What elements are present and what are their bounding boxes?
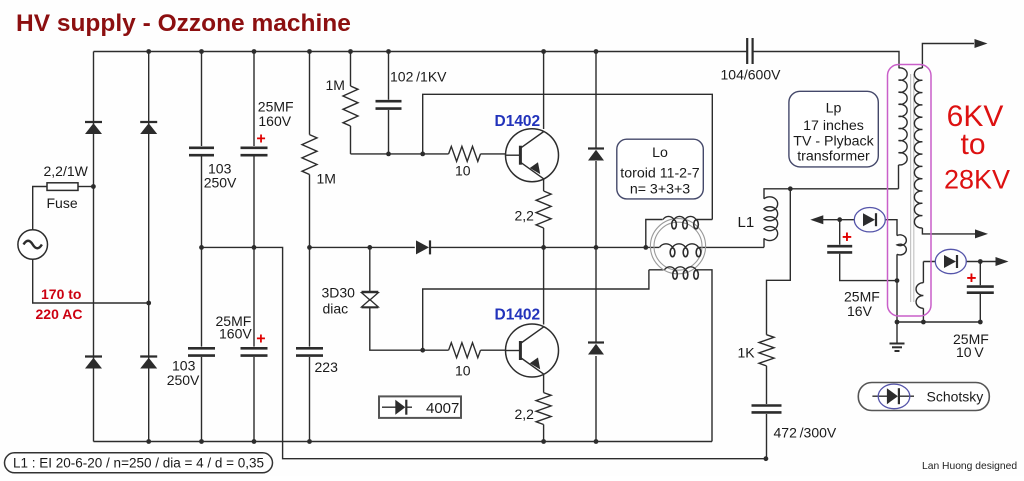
legend schottky diode: [872, 395, 914, 397]
wire: Lp secondary bottom lead to HV output 2: [922, 228, 975, 234]
svg-text:1K: 1K: [738, 345, 756, 361]
capacitor 25MF/160V bottom plates: [241, 347, 268, 350]
wire: L1 leads: [764, 189, 899, 248]
AC source sine symbol: [24, 241, 42, 249]
svg-text:Lo: Lo: [652, 145, 668, 161]
capacitor 472/300V plates: [752, 404, 782, 407]
wire: column x=388.5 (102/1KV): [388, 52, 390, 154]
AC source V1 circle: [18, 230, 48, 260]
junction dots ground line: [895, 320, 900, 325]
capacitor 103/250V top plates: [189, 147, 214, 150]
wire: switch node to toroid middle winding and L1: [544, 246, 764, 248]
wire: mid node bus y=247.4 from C bank down to 472 cap: [202, 247, 766, 458]
svg-text:10: 10: [455, 163, 471, 179]
svg-text:2,2/1W: 2,2/1W: [44, 163, 89, 179]
inductor L1 winding: [764, 197, 778, 241]
resistor 1M upper: [343, 86, 358, 126]
wire: toroid top winding leads: [646, 220, 713, 248]
output arrow HV top: [975, 39, 988, 48]
wire: column of capacitor C 103/250V top: [201, 52, 203, 442]
svg-text:diac: diac: [323, 301, 349, 317]
diode D3 bridge bottom-left: [85, 355, 102, 357]
wire: toroid bottom winding leads / bottom rail riser: [649, 270, 712, 442]
wire: Q2 collector: [543, 247, 545, 324]
wire: 25MF/16V cap branch: [840, 220, 897, 281]
flyback magenta outline: [888, 65, 932, 317]
wire: lower small winding leads: [922, 262, 924, 323]
toroid Lo top winding: [663, 216, 696, 219]
wire: column x=309.5 (1M lower + 223): [309, 52, 311, 442]
capacitor 103/250V bottom plates: [188, 347, 215, 350]
wire: Lp primary bottom lead: [898, 165, 900, 189]
transistor Q2 D1402: [506, 324, 559, 377]
svg-text:4007: 4007: [426, 400, 459, 417]
svg-text:to: to: [960, 128, 985, 161]
output arrow 10V: [996, 257, 1009, 266]
diode D5 series (4007) on switch-node wire: [416, 240, 429, 254]
capacitor 25MF/10V plates: [967, 285, 994, 288]
svg-text:2,2: 2,2: [515, 406, 535, 422]
svg-text:HV supply - Ozzone machine: HV supply - Ozzone machine: [16, 10, 351, 37]
junction dot 16V return: [895, 278, 900, 283]
svg-text:+: +: [967, 269, 977, 288]
svg-text:Lp: Lp: [826, 101, 842, 117]
svg-text:toroid 11-2-7: toroid 11-2-7: [620, 166, 699, 182]
junction dot AC to bridge: [146, 301, 151, 306]
resistor 1K: [759, 335, 774, 366]
wire: bottom return rail: [94, 441, 713, 443]
flyback HV secondary winding: [914, 68, 922, 228]
resistor 1M lower: [302, 135, 317, 175]
wire: schottky-2 row y=261.5: [923, 261, 996, 263]
diac 3D30: [362, 291, 379, 293]
junction dots switch node row: [307, 245, 312, 250]
svg-text:160V: 160V: [219, 326, 252, 342]
legend 4007 diode: [382, 406, 412, 408]
svg-text:n= 3+3+3: n= 3+3+3: [630, 182, 690, 198]
toroid Lo core rings: [650, 219, 705, 274]
note oval L1 spec: [5, 453, 273, 473]
flyback core lines: [910, 74, 912, 302]
ground symbol: [896, 322, 898, 344]
svg-text:17 inches: 17 inches: [803, 118, 864, 134]
capacitor 25MF/160V top plates: [241, 147, 268, 150]
svg-text:16V: 16V: [847, 303, 873, 319]
label box Lp flyback: [789, 91, 878, 167]
transistor Q1 D1402: [506, 129, 559, 182]
schottky diode SD2 (10V rail): [944, 255, 956, 268]
wire: top supply rail (right of 104/600V cap) with corner down to Lp primary: [753, 52, 899, 69]
schottky diode SD1 (16V rail): [863, 213, 875, 226]
wire: Q1 collector from rail: [543, 52, 545, 130]
svg-text:1M: 1M: [326, 77, 345, 93]
wire: Q2 emitter to 2,2 to bottom rail: [543, 375, 545, 442]
wire: 25MF/10V cap branch: [979, 262, 981, 323]
wire: Q1 base rail y=153.9: [351, 153, 506, 155]
svg-text:Lan Huong designed: Lan Huong designed: [922, 461, 1017, 472]
toroid Lo middle winding: [660, 244, 699, 248]
flyback 10V winding: [916, 283, 923, 309]
output arrow 16V (points left): [810, 215, 823, 224]
wire: series diode run (1M/223 node to switch node): [310, 246, 544, 248]
svg-text:10: 10: [455, 363, 471, 379]
junction dots Q1 base rail: [386, 152, 391, 157]
wire: Lp secondary top lead to HV output: [922, 44, 974, 69]
wire: Q1 feedback loop up-and-over to toroid top winding: [423, 94, 713, 219]
junction dot 472 bottom: [764, 456, 769, 461]
diode D7 freewheel lower: [588, 341, 604, 343]
wire: 1K/472 sense column: [767, 189, 791, 459]
svg-text:Fuse: Fuse: [47, 195, 78, 211]
wire: top supply rail (left of 104/600V cap): [94, 51, 747, 53]
capacitor 104/600V series plates: [746, 38, 748, 64]
wire: column of capacitor 25MF/160V: [253, 52, 255, 442]
wire: freewheel diode leg x=596: [595, 52, 597, 442]
junction dot L1/Lp wire: [788, 186, 793, 191]
junction dots mid bus: [199, 245, 204, 250]
svg-text:250V: 250V: [167, 372, 200, 388]
fuse F1 2,2/1W body: [47, 183, 78, 191]
svg-text:3D30: 3D30: [322, 285, 356, 301]
legend box 4007: [379, 396, 461, 418]
output arrow HV bottom: [975, 229, 988, 238]
junction dot schottky-1 node: [837, 217, 842, 222]
diode D2 bridge top-right: [140, 121, 157, 123]
svg-text:28KV: 28KV: [944, 165, 1010, 195]
svg-text:223: 223: [315, 359, 339, 375]
junction dots bottom rail: [146, 439, 151, 444]
flyback Lp primary winding: [899, 68, 908, 165]
svg-text:D1402: D1402: [495, 307, 541, 324]
capacitor 102/1KV plates: [376, 100, 402, 103]
resistor 2,2 (Q2 emitter): [536, 393, 551, 425]
diode D6 freewheel upper: [588, 147, 604, 149]
svg-text:10 V: 10 V: [956, 344, 984, 360]
resistor 10 (Q1 base): [449, 146, 481, 161]
flyback 16V winding: [897, 235, 906, 255]
svg-text:104/600V: 104/600V: [721, 67, 782, 83]
junction dot 10V output node: [978, 259, 983, 264]
wire: fuse right lead: [78, 186, 93, 188]
svg-text:102 /1KV: 102 /1KV: [390, 69, 447, 85]
resistor 10 (Q2 base): [449, 343, 481, 358]
wire: Q2 feedback loop to toroid bottom winding: [423, 270, 649, 350]
svg-text:L1 : EI 20-6-20 / n=250 / dia: L1 : EI 20-6-20 / n=250 / dia = 4 / d = …: [13, 456, 264, 471]
svg-text:TV - Plyback: TV - Plyback: [793, 133, 874, 149]
toroid Lo bottom winding: [665, 267, 697, 270]
diode D4 bridge bottom-right: [140, 355, 157, 357]
wire: right bridge leg x=148.7: [148, 52, 150, 442]
junction dot Q2 base: [420, 348, 425, 353]
wire: column x=350.5 (1M upper): [350, 52, 352, 154]
svg-text:170 to: 170 to: [41, 286, 81, 302]
svg-text:250V: 250V: [204, 175, 237, 191]
svg-text:Schotsky: Schotsky: [927, 389, 984, 405]
svg-text:+: +: [256, 330, 265, 347]
svg-text:+: +: [842, 228, 852, 247]
svg-text:472 /300V: 472 /300V: [774, 425, 837, 441]
capacitor 223 plates: [296, 347, 323, 350]
label box Lo toroid: [617, 139, 704, 199]
svg-text:L1: L1: [738, 214, 755, 231]
svg-text:+: +: [256, 131, 265, 148]
capacitor 25MF/16V plates: [827, 245, 852, 248]
wire: diac branch: [370, 247, 449, 350]
svg-text:transformer: transformer: [797, 148, 870, 164]
svg-text:1M: 1M: [317, 171, 336, 187]
wire: AC source and fuse loop: [33, 187, 149, 304]
wire: Q1 emitter to 2,2: [543, 179, 545, 247]
wire: left bridge leg x=93.5: [93, 52, 95, 442]
wire: schottky-1 row y=219.7: [823, 220, 897, 236]
svg-text:D1402: D1402: [495, 113, 541, 130]
legend box Schotsky: [858, 383, 989, 411]
wire: Q2 base rail y=350.2: [481, 349, 506, 351]
junction dot fuse node: [91, 184, 96, 189]
junction dots top rail: [146, 49, 151, 54]
wire: ground line y=322: [897, 321, 980, 323]
resistor 2,2 (Q1 emitter): [536, 191, 551, 228]
svg-text:2,2: 2,2: [515, 208, 535, 224]
diode D1 bridge top-left: [85, 121, 102, 123]
svg-text:220 AC: 220 AC: [36, 306, 83, 322]
wire: 16V winding bottom lead to ground line: [896, 254, 898, 322]
svg-text:160V: 160V: [258, 113, 291, 129]
